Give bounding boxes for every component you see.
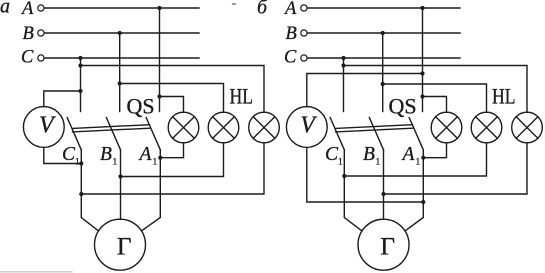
svg-text:1: 1: [75, 158, 80, 168]
node: phase C tap (scheme a): [78, 56, 82, 60]
node: lamp HL2 bottom on pole B1 (scheme a): [118, 174, 122, 178]
node: lamp HL2 bottom on pole C1 (scheme b): [342, 174, 346, 178]
wire: phase C drop to pole C1 (scheme b): [343, 58, 345, 112]
node: phase A tap (scheme b): [420, 6, 424, 10]
svg-text:V: V: [300, 113, 317, 139]
switch QS pole B1 blade (scheme a): [106, 118, 120, 150]
terminal A (scheme a): [38, 5, 44, 11]
wire: voltmeter bottom lead (scheme a): [44, 148, 82, 164]
bus wire C (scheme a): [44, 57, 199, 59]
node: lamp HL1 bottom on pole A1 (scheme b): [421, 156, 425, 160]
node: lamp HL3 bottom on pole C1 (scheme a): [79, 192, 83, 196]
svg-text:1: 1: [113, 158, 118, 168]
generator G (scheme b): [358, 219, 409, 270]
wire: voltmeter top lead (scheme a): [44, 91, 81, 107]
switch QS pole A1 blade (scheme a): [146, 118, 160, 150]
lamp HL3 (scheme a): [249, 112, 280, 143]
wire: lamp HL1 top lead (scheme b): [423, 97, 447, 113]
svg-text:1: 1: [376, 158, 381, 168]
wire: pole A1 to generator (scheme a): [142, 150, 161, 231]
terminal B (scheme a): [38, 30, 44, 36]
svg-text:C: C: [325, 144, 339, 165]
lamp HL2 (scheme a): [208, 112, 239, 143]
svg-text:HL: HL: [492, 85, 515, 109]
bus wire B (scheme a): [44, 32, 199, 34]
scan speck artifact: [233, 3, 236, 5]
node: lamp HL3 bottom on pole B1 (scheme b): [381, 192, 385, 196]
svg-text:C: C: [21, 48, 34, 68]
bus wire A (scheme b): [307, 7, 460, 9]
switch QS linkage bar (scheme b): [336, 125, 413, 132]
wire: lamp HL1 bottom to pole A1 (scheme a): [160, 143, 183, 158]
wire: lamp HL2 top lead (scheme a): [120, 84, 224, 113]
svg-text:1: 1: [153, 158, 158, 168]
wire: pole C1 to generator (scheme b): [344, 150, 362, 231]
label B1 (scheme b): [363, 144, 381, 168]
node: lamp HL3 top tap (scheme b): [341, 63, 345, 67]
generator G (scheme a): [95, 219, 146, 270]
wire: lamp HL3 bottom to pole B1 (scheme b): [384, 143, 528, 194]
svg-text:B: B: [100, 144, 112, 165]
node: voltmeter top tap on phase A (scheme b): [420, 71, 424, 75]
svg-text:B: B: [286, 24, 297, 44]
node: phase B tap (scheme a): [118, 31, 122, 35]
bus wire C (scheme b): [307, 57, 460, 59]
scan artifact bottom-left edge: [0, 271, 72, 273]
wire: voltmeter top lead to phase A (scheme b): [307, 74, 423, 107]
terminal C (scheme a): [38, 55, 44, 61]
label C1 (scheme a): [62, 144, 80, 168]
wire: pole B1 to generator (scheme a): [120, 150, 122, 220]
svg-text:A: A: [20, 0, 34, 19]
wire: lamp HL3 top lead (scheme b): [344, 66, 528, 113]
svg-text:б: б: [257, 0, 268, 19]
svg-text:Г: Г: [380, 231, 395, 260]
wire: phase A drop to pole A1 (scheme a): [159, 8, 161, 112]
wire: pole A1 to generator (scheme b): [405, 150, 423, 231]
node: phase A tap (scheme a): [157, 6, 161, 10]
svg-text:Г: Г: [117, 231, 132, 260]
bus wire B (scheme b): [307, 32, 460, 34]
wire: pole B1 to generator (scheme b): [383, 150, 385, 220]
label B1 (scheme a): [100, 144, 118, 168]
svg-text:A: A: [283, 0, 297, 19]
wire: lamp HL2 bottom to pole B1 (scheme a): [121, 143, 224, 177]
node: phase C tap (scheme b): [341, 56, 345, 60]
label C1 (scheme b): [325, 144, 343, 168]
terminal B (scheme b): [301, 30, 307, 36]
lamp HL1 (scheme b): [431, 112, 462, 143]
switch QS pole B1 blade (scheme b): [369, 118, 383, 150]
svg-text:C: C: [284, 48, 297, 68]
svg-text:C: C: [62, 144, 76, 165]
svg-text:QS: QS: [127, 94, 155, 119]
node: lamp HL2 top tap (scheme a): [118, 81, 122, 85]
svg-text:V: V: [39, 113, 56, 139]
wire: phase B drop to pole B1 (scheme a): [119, 33, 121, 112]
svg-text:A: A: [401, 144, 415, 165]
node: lamp HL1 top tap (scheme b): [420, 94, 424, 98]
wire: lamp HL3 top lead (scheme a): [81, 66, 265, 113]
svg-text:1: 1: [416, 158, 421, 168]
wire: phase B drop to pole B1 (scheme b): [382, 33, 384, 112]
wire: lamp HL1 bottom to pole A1 (scheme b): [423, 143, 446, 158]
voltmeter PV (scheme a): [23, 107, 64, 148]
wire: voltmeter bottom lead to pole A1 (scheme b): [307, 148, 424, 203]
node: voltmeter top tap (scheme a): [78, 89, 82, 93]
terminal C (scheme b): [301, 55, 307, 61]
node: lamp HL1 bottom on pole A1 (scheme a): [158, 156, 162, 160]
svg-text:HL: HL: [230, 85, 253, 109]
svg-text:QS: QS: [389, 94, 417, 119]
wire: lamp HL2 top lead (scheme b): [383, 84, 487, 112]
switch QS pole C1 blade (scheme b): [330, 118, 344, 150]
switch QS pole C1 blade (scheme a): [67, 118, 81, 150]
label A1 (scheme b): [401, 144, 421, 168]
bus wire A (scheme a): [44, 7, 199, 9]
terminal A (scheme b): [301, 5, 307, 11]
svg-text:а: а: [0, 0, 10, 18]
lamp HL1 (scheme a): [168, 112, 199, 143]
node: voltmeter bottom on pole C1 (scheme a): [79, 161, 83, 165]
node: voltmeter bottom on pole A1 (scheme b): [421, 200, 425, 204]
lamp HL2 (scheme b): [471, 112, 502, 143]
switch QS pole A1 blade (scheme b): [409, 118, 423, 150]
wire: lamp HL3 bottom to pole C1 (scheme a): [81, 143, 264, 194]
switch QS linkage bar (scheme a): [73, 125, 150, 132]
lamp HL3 (scheme b): [512, 112, 543, 143]
wire: lamp HL1 top lead (scheme a): [160, 97, 184, 113]
wire: phase A drop to pole A1 (scheme b): [422, 8, 424, 112]
svg-text:1: 1: [338, 158, 343, 168]
node: lamp HL2 top tap (scheme b): [381, 82, 385, 86]
label A1 (scheme a): [138, 144, 158, 168]
svg-text:B: B: [363, 144, 375, 165]
node: phase B tap (scheme b): [381, 31, 385, 35]
wire: phase C drop to pole C1 (scheme a): [80, 58, 82, 112]
svg-text:A: A: [138, 144, 152, 165]
wire: pole C1 to generator (scheme a): [81, 150, 98, 231]
svg-text:B: B: [23, 24, 34, 44]
voltmeter PV (scheme b): [286, 107, 327, 148]
node: lamp HL3 top tap (scheme a): [78, 63, 82, 67]
wire: lamp HL2 bottom to pole C1 (scheme b): [344, 143, 486, 176]
node: lamp HL1 top tap (scheme a): [157, 94, 161, 98]
